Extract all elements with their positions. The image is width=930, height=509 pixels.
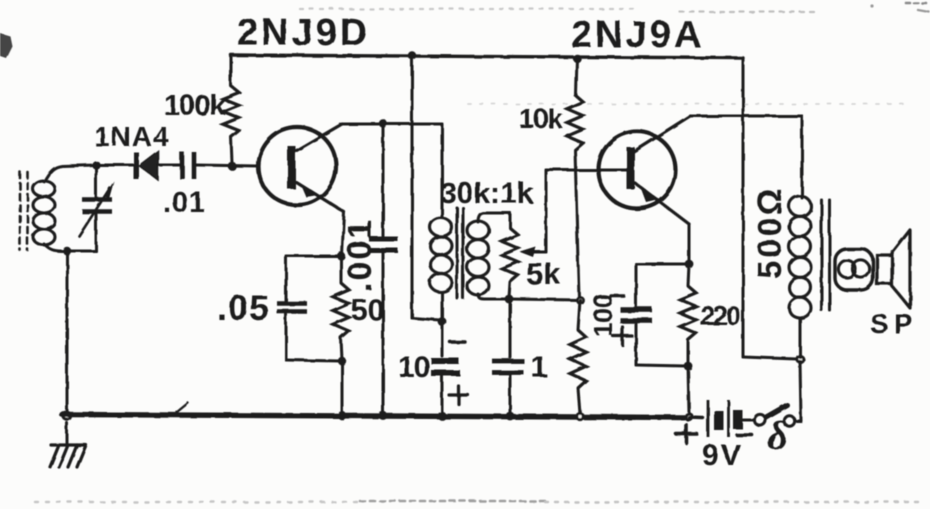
svg-text:220: 220 bbox=[700, 301, 740, 331]
svg-text:100: 100 bbox=[588, 294, 618, 337]
svg-text:.001: .001 bbox=[341, 218, 379, 292]
svg-text:50: 50 bbox=[351, 294, 384, 327]
svg-text:1NA4: 1NA4 bbox=[94, 121, 170, 152]
svg-text:2NJ9A: 2NJ9A bbox=[571, 14, 704, 56]
svg-text:5k: 5k bbox=[526, 256, 561, 291]
svg-text:9V: 9V bbox=[702, 439, 743, 472]
svg-text:.01: .01 bbox=[163, 187, 206, 219]
svg-text:30k:1k: 30k:1k bbox=[440, 177, 534, 210]
svg-text:100k: 100k bbox=[164, 90, 226, 122]
svg-text:2NJ9D: 2NJ9D bbox=[237, 12, 370, 54]
svg-text:.05: .05 bbox=[217, 287, 270, 328]
svg-text:δ: δ bbox=[767, 413, 788, 458]
svg-text:10: 10 bbox=[398, 351, 430, 384]
svg-text:10k: 10k bbox=[519, 103, 563, 134]
svg-text:1: 1 bbox=[531, 351, 548, 384]
svg-text:SP: SP bbox=[870, 308, 917, 339]
svg-text:500Ω: 500Ω bbox=[751, 185, 788, 279]
